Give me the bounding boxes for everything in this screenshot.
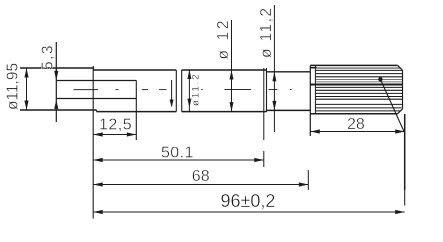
dia 11,95 dimension line with arrows bbox=[26, 68, 28, 110]
stub section outline bottom (with ext line for dia 11,95) bbox=[20, 109, 97, 111]
svg-text:ø11.2: ø11.2 bbox=[190, 72, 201, 106]
step face section3 to neck / 50.1 right region bbox=[263, 68, 265, 112]
28 dimension line with arrows bbox=[310, 131, 404, 133]
spline block top edge bbox=[310, 64, 397, 66]
step bottom small vertical bbox=[96, 110, 98, 112]
arrow pointing down inside shaft near groove bbox=[171, 80, 173, 106]
spline teeth lines bbox=[310, 68, 402, 111]
68 right ext line bbox=[307, 170, 309, 190]
svg-text:ø11,95: ø11,95 bbox=[5, 63, 22, 110]
68 dimension line with arrows bbox=[93, 184, 308, 186]
neck bottom outline bbox=[267, 109, 311, 111]
stub section outline top (with ext line for dia 11,95) bbox=[20, 67, 94, 69]
centerline axis bbox=[74, 89, 292, 91]
undercut groove right edge bbox=[181, 70, 183, 112]
svg-text:96±0,2: 96±0,2 bbox=[221, 191, 276, 211]
undercut groove left edge bbox=[175, 70, 177, 112]
svg-text:68: 68 bbox=[192, 168, 210, 185]
dia 11,2 dimension line bbox=[273, 5, 275, 132]
spline block bottom edge bbox=[310, 113, 397, 115]
right ext line for 28 and 96 dims bbox=[404, 114, 406, 190]
dia 12 dimension line bbox=[231, 20, 233, 112]
spline right chamfer bottom diagonal bbox=[398, 109, 403, 114]
section2+3 bottom outline bbox=[97, 111, 177, 113]
dia 11.2 groove dimension line bbox=[188, 70, 190, 112]
step face stub to section2 / common left ext line bbox=[92, 66, 94, 219]
5,3 dimension arrows (outside style) bbox=[54, 71, 58, 81]
12,5 dimension line with arrows bbox=[93, 134, 136, 136]
svg-text:ø 11,2: ø 11,2 bbox=[258, 8, 275, 58]
section2+3 top outline bbox=[93, 69, 176, 71]
spline left chamfer vertical bbox=[314, 65, 316, 113]
leader dot on spline bbox=[378, 77, 382, 81]
leader diagonal line bbox=[380, 79, 404, 133]
svg-text:28: 28 bbox=[347, 116, 365, 133]
svg-text:5,3: 5,3 bbox=[40, 44, 57, 70]
slot top line bbox=[56, 80, 136, 82]
slot end vertical / 12,5 right ext line bbox=[135, 81, 137, 141]
50.1 right ext line bbox=[263, 151, 265, 167]
50.1 dimension line with arrows bbox=[93, 159, 264, 161]
spline block left face / 28 left ext line bbox=[309, 65, 311, 136]
neck top outline bbox=[267, 71, 311, 73]
shaft left end face / 5,3 dimension line bbox=[55, 42, 57, 122]
slot bottom line bbox=[56, 98, 136, 100]
spline block right edge bbox=[402, 70, 404, 109]
svg-text:50.1: 50.1 bbox=[161, 145, 194, 162]
svg-text:ø 12: ø 12 bbox=[215, 21, 232, 60]
spline right chamfer top diagonal bbox=[398, 65, 403, 70]
svg-text:12,5: 12,5 bbox=[99, 117, 132, 134]
96 +/-0,2 dimension line with arrows bbox=[93, 211, 405, 213]
